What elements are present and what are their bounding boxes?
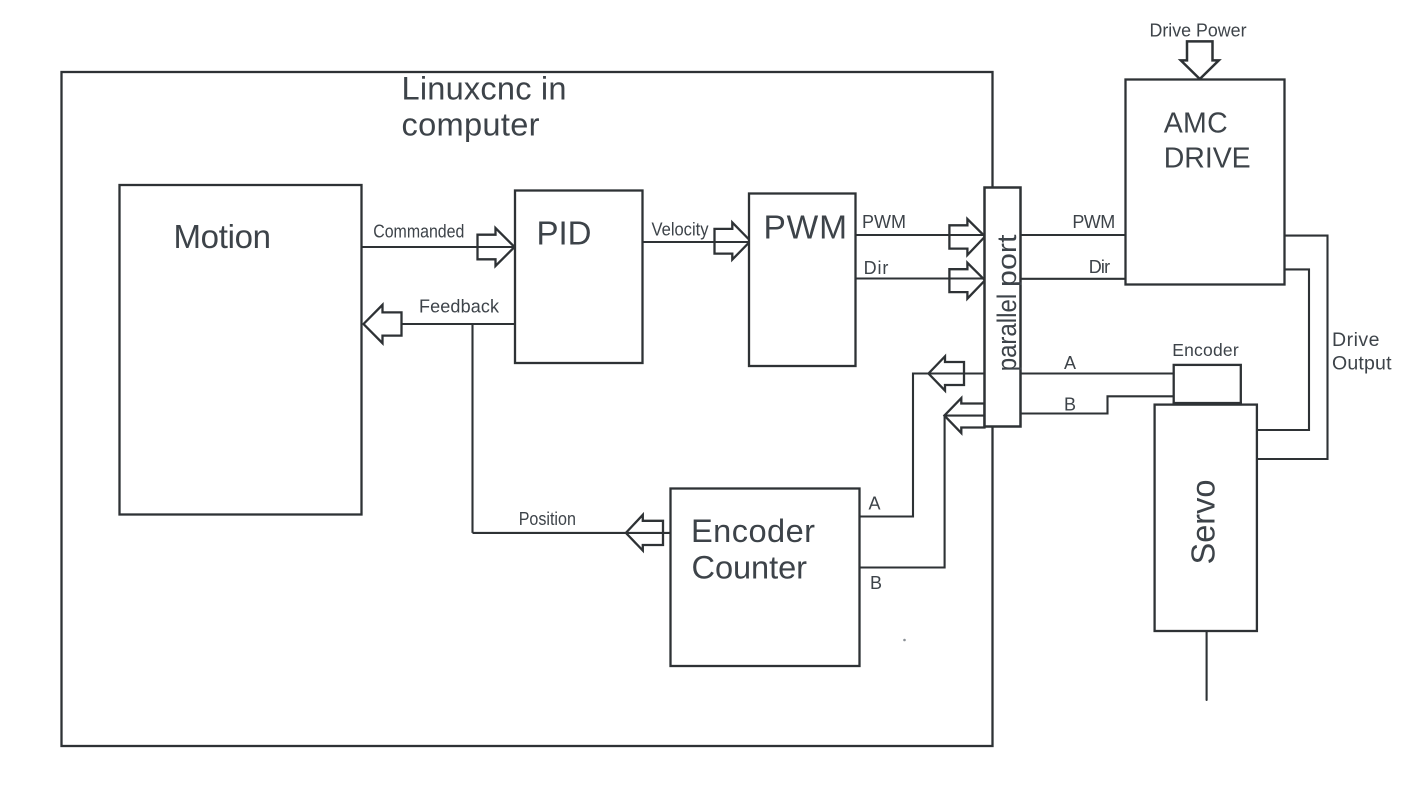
wire Servo bottom stub <box>1206 631 1208 700</box>
svg-text:Feedback: Feedback <box>419 297 500 317</box>
box parallel port <box>985 188 1021 427</box>
arrow Commanded (right) <box>478 228 515 266</box>
wire A: encoder to parallel port <box>1021 372 1174 374</box>
svg-text:Dir: Dir <box>864 258 889 278</box>
svg-text:Dir: Dir <box>1089 257 1110 277</box>
box PID <box>515 191 643 364</box>
svg-text:Encoder: Encoder <box>691 512 815 549</box>
box PWM <box>749 194 856 367</box>
arrow Position (left) <box>626 515 663 551</box>
wire A: parallel port to Encoder Counter <box>860 374 985 517</box>
svg-text:Position: Position <box>519 509 576 529</box>
svg-text:Velocity: Velocity <box>652 220 709 240</box>
svg-text:Drive: Drive <box>1332 329 1380 351</box>
svg-text:computer: computer <box>402 105 540 142</box>
box AMC DRIVE <box>1126 80 1285 285</box>
wire Velocity: PID to PWM <box>643 241 750 243</box>
svg-text:Motion: Motion <box>174 218 272 255</box>
svg-text:AMC: AMC <box>1164 108 1228 140</box>
arrow Dir (right) <box>949 263 985 299</box>
svg-text:B: B <box>1064 395 1076 415</box>
arrow PWM (right) <box>949 219 985 255</box>
encoder box thick bottom edge <box>1173 402 1243 405</box>
svg-text:Drive Power: Drive Power <box>1150 19 1247 40</box>
wire Drive Output 2: AMC DRIVE to Servo <box>1257 269 1309 430</box>
wire Drive Output 1: AMC DRIVE to Servo <box>1257 236 1328 459</box>
svg-text:Output: Output <box>1332 352 1392 374</box>
svg-text:Counter: Counter <box>692 549 808 586</box>
wire Position: to Encoder Counter <box>473 532 671 534</box>
svg-text:port: port <box>992 234 1022 287</box>
wire PWM: parallel port to AMC DRIVE <box>1021 234 1126 236</box>
arrow Velocity (right) <box>715 222 751 259</box>
arrow Drive Power (down) <box>1181 41 1219 79</box>
svg-text:B: B <box>870 573 882 593</box>
svg-text:Encoder: Encoder <box>1172 340 1239 360</box>
svg-text:PID: PID <box>537 215 592 252</box>
svg-text:PWM: PWM <box>862 212 906 232</box>
wire Dir: parallel port to AMC DRIVE <box>1021 278 1126 280</box>
svg-text:Servo: Servo <box>1185 480 1222 565</box>
arrow Feedback (left) <box>364 305 402 343</box>
wire Feedback vertical drop <box>471 324 473 533</box>
box Encoder Counter <box>671 489 860 667</box>
wire Feedback: PID to Motion <box>402 323 516 325</box>
junction dot <box>903 639 906 642</box>
svg-text:parallel: parallel <box>992 294 1022 372</box>
svg-text:Linuxcnc in: Linuxcnc in <box>402 70 567 107</box>
wire B: parallel port to Encoder Counter <box>860 416 985 568</box>
svg-text:PWM: PWM <box>764 210 848 247</box>
wire Commanded: Motion to PID <box>362 246 515 248</box>
svg-text:Commanded: Commanded <box>373 222 464 242</box>
svg-text:PWM: PWM <box>1072 212 1115 232</box>
svg-text:DRIVE: DRIVE <box>1164 143 1251 175</box>
box Servo <box>1155 405 1257 631</box>
svg-text:A: A <box>1064 353 1076 373</box>
outer box: Linuxcnc in computer <box>62 72 993 746</box>
wire B: encoder to parallel port <box>1021 396 1174 413</box>
box Motion <box>120 185 362 515</box>
arrow A feedback (left) <box>929 356 965 390</box>
wire Dir: PWM box to parallel port <box>856 277 985 279</box>
wire PWM: PWM box to parallel port <box>856 234 985 236</box>
arrow B feedback (left) <box>944 398 984 433</box>
svg-text:A: A <box>869 494 881 514</box>
box Encoder <box>1174 365 1241 405</box>
